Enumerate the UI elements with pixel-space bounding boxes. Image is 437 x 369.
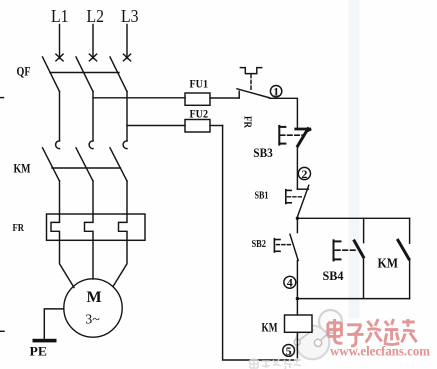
wire pole3 QF to KM: [126, 92, 128, 142]
pushbutton SB2 actuator bracket: [274, 239, 280, 252]
svg-text:L2: L2: [87, 6, 105, 26]
wire pole1 FR to motor: [60, 240, 75, 287]
wire SB1 to SB2: [296, 217, 298, 232]
breaker QF pole 2 X mark: [89, 54, 96, 61]
pushbutton SB4 lower wire: [363, 257, 365, 299]
pushbutton SB3 contact tick: [296, 128, 310, 131]
svg-text:SB4: SB4: [323, 268, 344, 283]
fuse FU2 box: [185, 120, 210, 133]
svg-text:SB3: SB3: [253, 145, 273, 160]
wire L2 drop: [92, 25, 94, 59]
thermal relay FR box: [47, 214, 146, 240]
svg-text:M: M: [87, 289, 102, 306]
svg-text:FU1: FU1: [190, 77, 209, 91]
watermark chinese text 电子发烧友 (stylized strokes): [328, 319, 417, 346]
svg-text:FR: FR: [242, 116, 253, 129]
wire FR contact to corner: [270, 98, 298, 128]
wire FU1 to FR contact: [210, 97, 239, 99]
motor M circle: [64, 279, 122, 337]
breaker QF pole 3 X mark: [123, 54, 130, 61]
wire pole3 FR to motor: [113, 240, 127, 286]
svg-text:KM: KM: [14, 162, 31, 176]
wire left control rail: [223, 126, 298, 361]
node 2 circle: [298, 167, 310, 181]
svg-text:QF: QF: [17, 65, 31, 79]
contact KM aux blade: [398, 240, 409, 258]
pushbutton SB4 actuator bracket: [334, 240, 341, 260]
edge artifact dash left bottom: [0, 330, 4, 332]
svg-text:L3: L3: [121, 6, 139, 26]
pushbutton SB4 upper wire: [363, 218, 365, 242]
svg-text:www.elecfans.com: www.elecfans.com: [330, 343, 431, 358]
svg-text:SB1: SB1: [255, 189, 269, 201]
contactor KM pole 3 fixed contact arc: [123, 141, 127, 149]
wire tap L3 to FU2: [127, 125, 185, 127]
node 1 circle: [270, 85, 281, 99]
breaker QF pole 3 blade: [110, 57, 127, 92]
thermal relay FR heater pole 2: [85, 214, 94, 240]
thermal relay FR contact blade: [237, 89, 270, 98]
contactor KM pole 2 blade: [76, 148, 93, 181]
wire pole2 FR to motor: [92, 240, 94, 279]
wire branch top line: [297, 217, 409, 219]
pushbutton SB2 contact blade: [290, 234, 298, 260]
svg-text:L1: L1: [51, 6, 69, 26]
wire SB2 to coil KM: [296, 261, 298, 315]
junction dot branch top: [296, 217, 299, 220]
pushbutton SB1 contact blade: [297, 185, 309, 217]
breaker QF pole 1 blade: [43, 57, 60, 92]
wire pole3 KM to FR: [126, 181, 128, 214]
contactor KM pole 3 blade: [110, 148, 127, 181]
wire pole2 KM to FR: [92, 181, 94, 214]
svg-text:FR: FR: [13, 222, 25, 234]
thermal relay FR dashed link: [250, 75, 252, 91]
svg-text:4: 4: [287, 276, 293, 290]
pushbutton SB1 actuator bracket: [286, 190, 291, 204]
pushbutton SB1 contact tick: [297, 188, 308, 190]
contact KM aux upper wire: [409, 218, 411, 243]
wire pole1 QF to KM: [59, 92, 61, 142]
pushbutton SB3 dashed link: [281, 134, 304, 136]
svg-text:1: 1: [273, 85, 279, 99]
svg-text:2: 2: [301, 167, 307, 181]
thermal relay FR heater pole 3: [119, 214, 128, 240]
pushbutton SB3 contact blade: [298, 129, 308, 146]
wire pole1 KM to FR: [59, 181, 61, 214]
svg-text:5: 5: [286, 344, 292, 358]
node 4 circle: [284, 276, 296, 290]
thermal relay FR contact tick: [238, 91, 240, 98]
wire SB3 to SB1: [296, 146, 298, 189]
wire L3 drop: [126, 25, 128, 59]
pushbutton SB1 dashed link: [288, 196, 304, 198]
svg-text:3~: 3~: [85, 312, 100, 327]
fuse FU1 box: [185, 93, 210, 105]
thermal relay FR heater pole 1: [51, 214, 60, 240]
junction dot branch bottom: [296, 297, 299, 300]
wire branch bottom line: [297, 298, 409, 300]
contactor KM pole 1 fixed contact arc: [56, 141, 60, 149]
watermark logo pin ring 1: [294, 339, 300, 345]
wire coil to bottom: [296, 332, 298, 360]
svg-text:KM: KM: [262, 321, 278, 335]
wire L1 drop: [59, 25, 61, 59]
pushbutton SB4 contact blade: [354, 241, 363, 257]
wire pole2 QF to KM: [92, 92, 94, 142]
node 5 circle: [283, 344, 295, 358]
ground PE bar: [33, 339, 57, 343]
contactor KM pole 1 blade: [43, 148, 60, 181]
watermark logo big circle: [296, 326, 330, 360]
wire tap L2 to FU1: [93, 97, 185, 99]
pushbutton SB2 dashed link: [277, 244, 292, 246]
breaker QF linkage bar: [50, 72, 119, 74]
watermark faint bottom text: [250, 358, 301, 369]
watermark logo pin stem 2: [321, 332, 331, 341]
watermark logo pin ring 2: [314, 339, 321, 346]
watermark logo small circle top: [319, 310, 342, 333]
pushbutton SB4 dashed link: [336, 249, 356, 251]
edge artifact dash left top: [0, 97, 4, 99]
breaker QF pole 2 blade: [76, 57, 93, 92]
contactor KM pole 2 fixed contact arc: [89, 141, 93, 149]
light scan band: [349, 0, 360, 318]
svg-text:FU2: FU2: [190, 107, 209, 121]
pushbutton SB3 actuator bracket: [279, 126, 285, 145]
svg-text:SB2: SB2: [252, 238, 267, 250]
coil KM box: [285, 315, 313, 332]
contact KM aux lower wire: [409, 259, 411, 299]
svg-text:KM: KM: [378, 255, 399, 270]
contactor KM linkage bar: [52, 167, 121, 169]
thermal relay FR release element (trident): [240, 68, 261, 74]
breaker QF pole 1 X mark: [56, 54, 63, 61]
watermark logo pin stem 1: [300, 330, 314, 341]
wire motor to PE: [44, 309, 64, 339]
svg-text:PE: PE: [30, 344, 48, 359]
wire FU2 to left control rail: [210, 125, 223, 127]
